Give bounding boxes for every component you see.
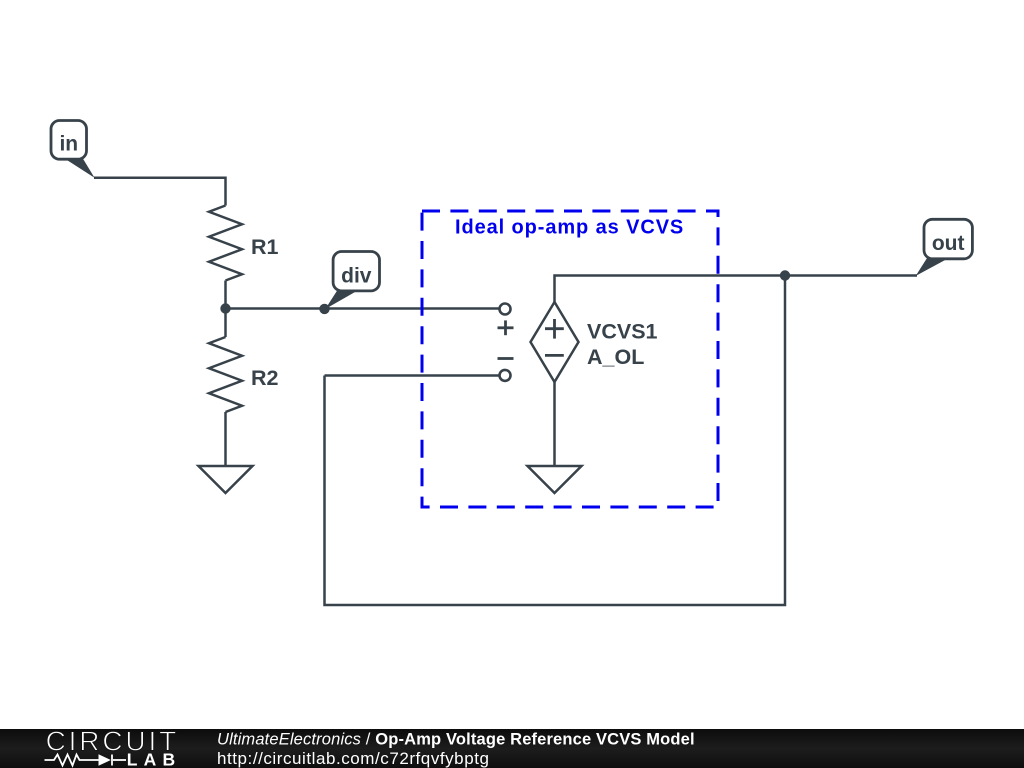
svg-text:LAB: LAB xyxy=(127,750,182,768)
svg-text:div: div xyxy=(341,264,372,287)
svg-text:out: out xyxy=(932,232,965,255)
svg-text:VCVS1: VCVS1 xyxy=(587,320,658,344)
svg-text:in: in xyxy=(59,133,78,156)
svg-text:Ideal op-amp as VCVS: Ideal op-amp as VCVS xyxy=(455,217,684,239)
svg-text:A_OL: A_OL xyxy=(587,345,644,369)
svg-text:R1: R1 xyxy=(251,235,279,259)
svg-text:R2: R2 xyxy=(251,366,279,390)
svg-text:http://circuitlab.com/c72rfqvf: http://circuitlab.com/c72rfqvfybptg xyxy=(217,749,489,768)
svg-text:UltimateElectronics / Op-Amp V: UltimateElectronics / Op-Amp Voltage Ref… xyxy=(217,731,695,749)
